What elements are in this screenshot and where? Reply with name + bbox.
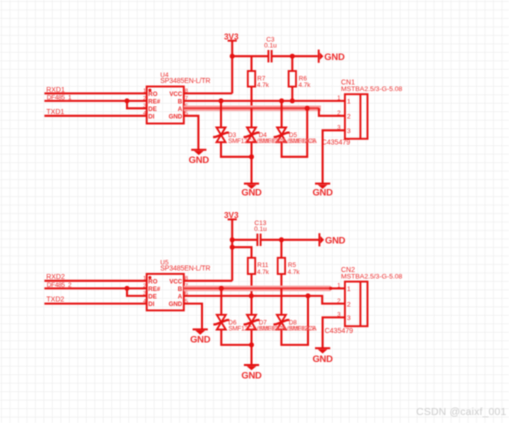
svg-text:RO: RO <box>148 278 157 285</box>
ground (chip) <box>189 150 210 165</box>
svg-text:RE#: RE# <box>148 286 160 293</box>
svg-text:4.7k: 4.7k <box>257 269 270 276</box>
svg-text:B: B <box>178 286 183 293</box>
junction R5 top <box>279 237 284 242</box>
wire B bus tail <box>331 287 345 289</box>
svg-text:0.1u: 0.1u <box>254 226 267 233</box>
svg-text:2: 2 <box>337 298 341 305</box>
wire R6 bottom stub <box>291 87 293 101</box>
wire R11 bottom to A line <box>250 274 252 296</box>
svg-text:GND: GND <box>189 154 210 165</box>
wire R6 top stub <box>291 56 293 71</box>
wire D3 bottom rail <box>221 142 252 157</box>
wire D4 bottom <box>250 142 252 157</box>
svg-text:GND: GND <box>325 234 346 245</box>
junction 3V3 rail <box>230 54 235 59</box>
resistor R5 4.7k <box>278 258 301 276</box>
wire D6 top <box>220 288 222 314</box>
diode D5 SMF12CA <box>274 127 290 142</box>
junction 3V3 rail <box>230 237 235 242</box>
svg-text:0.1u: 0.1u <box>264 42 277 49</box>
svg-text:A: A <box>178 293 183 300</box>
svg-text:RE#: RE# <box>148 98 160 105</box>
svg-text:1: 1 <box>347 286 351 293</box>
wire R7 top stub <box>250 56 252 71</box>
svg-text:GND: GND <box>190 334 211 345</box>
junction RE#/DE <box>125 286 130 291</box>
svg-text:MSTBA2.5/3-G-5.08: MSTBA2.5/3-G-5.08 <box>341 86 402 93</box>
capacitor C3 0.1u <box>264 37 277 63</box>
wire CN1 pin3 to ground <box>323 130 345 183</box>
wire net DF485_2 <box>44 287 146 289</box>
svg-text:DF485_1: DF485_1 <box>47 95 72 102</box>
svg-text:2: 2 <box>143 284 146 290</box>
svg-text:SMF12CA: SMF12CA <box>228 326 257 333</box>
diode D3 SMF12CA <box>213 127 229 142</box>
wire 3V3 rail to cap <box>232 239 257 241</box>
svg-text:B: B <box>178 98 183 105</box>
junction R5/B <box>279 286 284 291</box>
wire 3V3 rail to cap <box>232 55 268 57</box>
capacitor C13 0.1u <box>254 220 267 246</box>
ground port (top decoupling) <box>319 50 345 63</box>
svg-text:GND: GND <box>169 113 183 120</box>
wire chip GND stub <box>184 116 199 150</box>
svg-text:4.7k: 4.7k <box>299 82 312 89</box>
diode D6 SMF12CA <box>213 315 229 330</box>
svg-text:3: 3 <box>143 291 146 297</box>
svg-text:2: 2 <box>347 114 351 121</box>
svg-text:6M83B47B: 6M83B47B <box>257 138 286 145</box>
wire A bus to CN pin2 <box>184 296 345 304</box>
svg-text:GND: GND <box>312 353 333 364</box>
power flag 3V3 (bottom) <box>224 211 239 220</box>
svg-text:CSDN @caixf_001: CSDN @caixf_001 <box>416 407 506 418</box>
svg-text:RXD1: RXD1 <box>46 87 65 94</box>
junction D6/B <box>219 286 224 291</box>
junction D5/B <box>279 98 284 103</box>
wire chip GND stub <box>184 304 202 330</box>
svg-text:RXD2: RXD2 <box>46 274 65 281</box>
svg-text:MSTBA2.5/3-G-5.08: MSTBA2.5/3-G-5.08 <box>341 273 402 280</box>
svg-text:6M83B47B: 6M83B47B <box>287 326 316 333</box>
junction RE#/DE <box>125 98 130 103</box>
IC U5 SP3485EN-L/TR RS-485 transceiver <box>143 259 210 310</box>
ground port (bottom decoupling) <box>319 233 345 246</box>
wire D7 bottom <box>250 330 252 345</box>
power flag 3V3 (top) <box>224 32 239 41</box>
junction R6 top <box>290 54 295 59</box>
wire rail to ground <box>250 345 252 365</box>
wire CN2 pin3 to ground <box>323 317 345 348</box>
junction R11/A <box>249 293 254 298</box>
svg-text:6M83B47B: 6M83B47B <box>287 138 316 145</box>
wire D7 top <box>250 296 252 315</box>
junction R7/A <box>249 106 254 111</box>
svg-text:VCC: VCC <box>169 278 182 285</box>
wire RE#-DE tie <box>127 288 147 296</box>
wire R5 top stub <box>280 240 282 258</box>
wire net DF485_1 <box>44 100 146 102</box>
svg-text:DI: DI <box>148 301 154 308</box>
svg-text:GND: GND <box>312 187 333 198</box>
svg-text:SP3485EN-L/TR: SP3485EN-L/TR <box>160 78 210 85</box>
svg-text:C435479: C435479 <box>322 139 351 147</box>
svg-text:A: A <box>178 106 183 113</box>
connector CN2 MSTBA2.5/3-G-5.08 <box>337 267 402 326</box>
svg-text:GND: GND <box>241 370 262 381</box>
ground (chip) <box>190 329 211 344</box>
svg-text:2: 2 <box>143 96 146 102</box>
connector CN1 MSTBA2.5/3-G-5.08 <box>337 80 402 139</box>
svg-text:TXD1: TXD1 <box>46 109 64 116</box>
diode D8 SMF12CA <box>274 315 290 330</box>
svg-text:SP3485EN-L/TR: SP3485EN-L/TR <box>160 266 210 273</box>
junction D5/A <box>305 106 310 111</box>
wire D8 rail to A <box>281 296 308 345</box>
svg-text:1: 1 <box>337 283 341 290</box>
svg-text:1: 1 <box>143 276 146 282</box>
ground (CN2 pin3) <box>312 348 333 364</box>
svg-text:TXD2: TXD2 <box>46 297 64 304</box>
net highlight B <box>184 286 331 292</box>
svg-text:DE: DE <box>148 293 156 300</box>
wire D4 top <box>250 108 252 127</box>
stray junction B <box>329 287 332 290</box>
svg-text:VCC: VCC <box>169 91 182 98</box>
svg-text:RO: RO <box>148 91 157 98</box>
svg-text:DE: DE <box>148 106 156 113</box>
svg-text:DF485_2: DF485_2 <box>47 282 72 289</box>
svg-text:DI: DI <box>148 113 154 120</box>
ground (diode rail) <box>241 365 262 381</box>
wire cap to GND port <box>261 239 319 241</box>
wire RE#-DE tie <box>127 101 147 108</box>
wire D5 top <box>281 101 283 128</box>
wire net TXD2 <box>44 303 146 305</box>
wire R11 top jog <box>232 247 251 258</box>
wire net RXD2 <box>44 280 146 282</box>
wire A bus jog to CN pin2 <box>319 108 345 116</box>
wire net TXD1 <box>44 115 146 117</box>
junction D8/A <box>306 293 311 298</box>
svg-text:3: 3 <box>143 104 146 110</box>
wire D3 top <box>220 101 222 128</box>
junction D3/B <box>219 98 224 103</box>
wire D8 top <box>280 288 282 314</box>
diode D4 SMF12CA <box>244 127 260 142</box>
resistor R7 4.7k <box>248 71 270 89</box>
junction R6/B <box>290 98 295 103</box>
svg-text:1: 1 <box>347 99 351 106</box>
svg-text:3: 3 <box>347 315 351 322</box>
resistor R11 4.7k <box>248 258 270 276</box>
diode D7 SMF12CA <box>244 315 260 330</box>
svg-text:6M83B47B: 6M83B47B <box>257 326 286 333</box>
wire D6 bottom rail <box>221 330 251 345</box>
svg-text:2: 2 <box>337 110 341 117</box>
wire cap to GND port <box>272 55 318 57</box>
net highlight A <box>184 106 321 112</box>
wire 3V3 stem / VCC riser <box>231 219 233 280</box>
svg-text:2: 2 <box>347 301 351 308</box>
svg-text:GND: GND <box>324 51 345 62</box>
wire B bus <box>184 100 345 102</box>
svg-text:GND: GND <box>241 187 262 198</box>
wire net RXD1 <box>44 92 146 94</box>
svg-text:4.7k: 4.7k <box>257 82 270 89</box>
svg-text:C435479: C435479 <box>325 327 354 335</box>
ground (diode rail) <box>241 184 262 198</box>
svg-text:SMF12CA: SMF12CA <box>228 138 257 145</box>
svg-text:3: 3 <box>347 128 351 135</box>
wire rail to ground <box>250 157 252 184</box>
junction diode rail <box>249 154 254 159</box>
ground (CN1 pin3) <box>312 184 333 198</box>
svg-text:1: 1 <box>143 89 146 95</box>
junction diode rail <box>249 342 254 347</box>
wire 3V3 stem / VCC riser <box>231 41 233 94</box>
wire R7 bottom to A line <box>250 87 252 109</box>
svg-text:GND: GND <box>169 301 183 308</box>
wire D5 rail to A <box>282 108 308 157</box>
IC U4 SP3485EN-L/TR RS-485 transceiver <box>143 72 210 124</box>
svg-text:4.7k: 4.7k <box>288 269 301 276</box>
junction at 3V3 stem <box>230 245 235 250</box>
resistor R6 4.7k <box>289 71 312 89</box>
wire R5 bottom stub <box>280 274 282 288</box>
svg-text:1: 1 <box>337 95 341 102</box>
